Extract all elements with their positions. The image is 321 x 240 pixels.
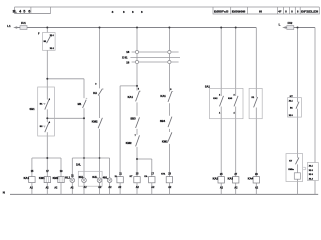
svg-text:4F: 4F bbox=[278, 9, 281, 13]
svg-text:3HL: 3HL bbox=[92, 175, 97, 179]
svg-text:KM1: KM1 bbox=[162, 140, 168, 144]
svg-text:KA4: KA4 bbox=[248, 177, 254, 181]
svg-text:KA2: KA2 bbox=[213, 177, 219, 181]
svg-text:18: 18 bbox=[126, 50, 129, 54]
svg-text:KM1a: KM1a bbox=[288, 169, 294, 171]
svg-text:L: L bbox=[279, 23, 281, 27]
svg-text:B55Fc5: B55Fc5 bbox=[214, 9, 229, 13]
svg-text:X2-3: X2-3 bbox=[309, 174, 313, 176]
svg-text:X2-1: X2-1 bbox=[289, 100, 293, 102]
svg-text:FU2: FU2 bbox=[288, 22, 293, 25]
svg-text:KA1: KA1 bbox=[160, 94, 166, 98]
svg-text:KM1: KM1 bbox=[39, 176, 45, 180]
svg-text:2HL: 2HL bbox=[79, 175, 84, 179]
svg-text:KA: KA bbox=[93, 91, 97, 95]
svg-text:KA3: KA3 bbox=[228, 177, 234, 181]
svg-text:SA1: SA1 bbox=[205, 84, 211, 88]
svg-text:X 81: X 81 bbox=[122, 55, 128, 59]
svg-text:X2-1: X2-1 bbox=[309, 165, 313, 167]
svg-text:N: N bbox=[3, 191, 5, 195]
svg-text:B5986: B5986 bbox=[232, 9, 247, 13]
svg-text:SB1: SB1 bbox=[30, 107, 36, 111]
svg-text:SB3: SB3 bbox=[130, 117, 136, 121]
svg-text:KM2: KM2 bbox=[126, 141, 132, 145]
svg-text:KA1: KA1 bbox=[128, 95, 134, 99]
svg-text:5: 5 bbox=[23, 9, 25, 13]
svg-text:1HL: 1HL bbox=[76, 162, 81, 166]
svg-text:X2-2: X2-2 bbox=[309, 170, 313, 172]
svg-text:X1-1: X1-1 bbox=[50, 35, 54, 37]
svg-text:3L: 3L bbox=[13, 9, 17, 13]
svg-text:4HL: 4HL bbox=[103, 175, 108, 179]
svg-text:4: 4 bbox=[19, 9, 21, 13]
svg-text:HL1: HL1 bbox=[65, 176, 71, 180]
svg-text:KA1: KA1 bbox=[24, 176, 30, 180]
svg-text:M1: M1 bbox=[78, 102, 82, 106]
svg-text:L1: L1 bbox=[7, 24, 11, 28]
svg-text:KM2: KM2 bbox=[53, 176, 59, 180]
svg-text:X1-2: X1-2 bbox=[50, 48, 54, 50]
svg-text:KM2: KM2 bbox=[92, 120, 98, 124]
svg-text:18: 18 bbox=[126, 61, 129, 65]
svg-text:FU1: FU1 bbox=[21, 22, 26, 25]
svg-text:X2-3: X2-3 bbox=[289, 115, 293, 117]
svg-text:BF2ELE8: BF2ELE8 bbox=[301, 10, 319, 13]
svg-text:SB4: SB4 bbox=[160, 119, 166, 123]
svg-text:KA: KA bbox=[144, 175, 148, 178]
svg-text:6: 6 bbox=[28, 9, 30, 13]
